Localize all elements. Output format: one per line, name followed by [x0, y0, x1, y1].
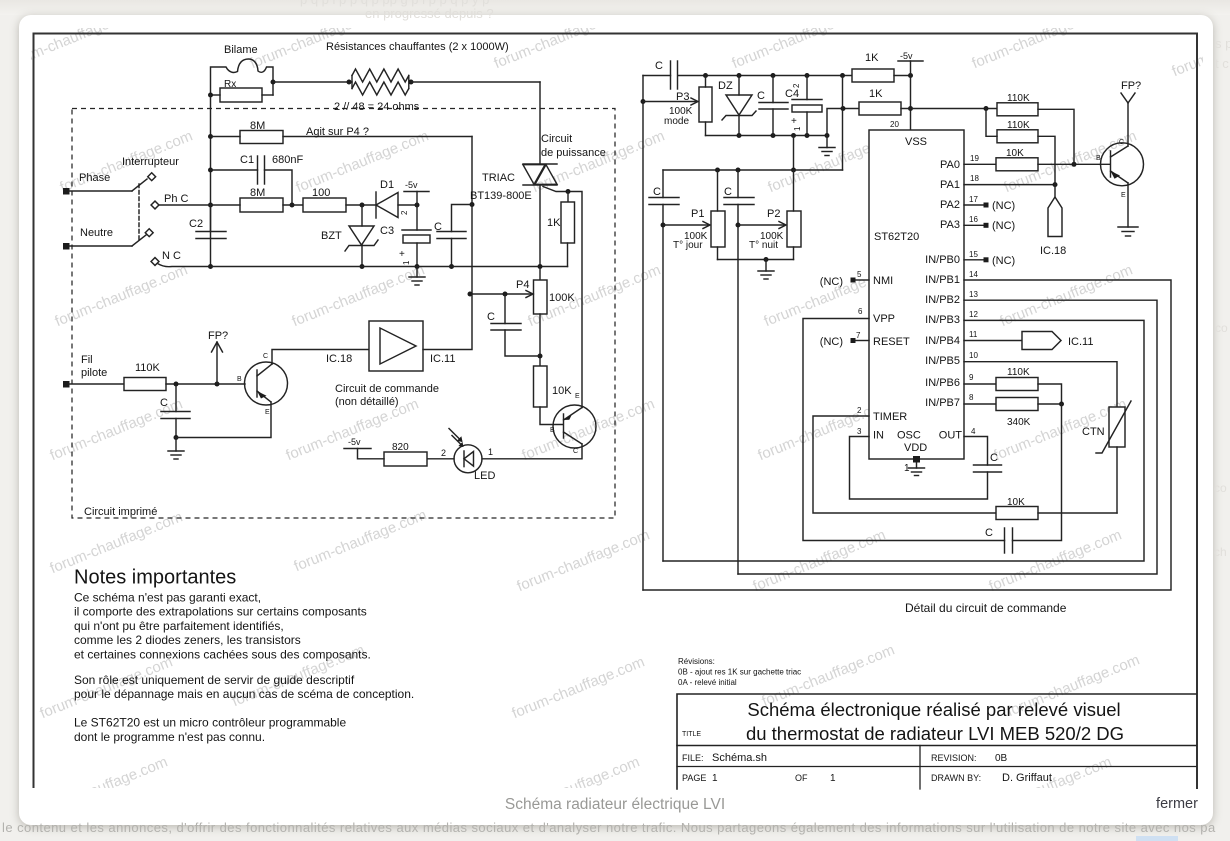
svg-text:C3: C3: [380, 225, 394, 237]
svg-text:8: 8: [969, 393, 974, 402]
svg-text:+: +: [791, 116, 797, 127]
svg-text:comme les 2 diodes zeners, les: comme les 2 diodes zeners, les transisto…: [74, 633, 301, 647]
RIGHT DETAIL: [641, 51, 1172, 615]
svg-text:VDD: VDD: [904, 442, 927, 454]
svg-text:17: 17: [969, 195, 978, 204]
svg-text:Notes importantes: Notes importantes: [74, 567, 236, 589]
svg-text:6: 6: [858, 307, 863, 316]
svg-text:E: E: [575, 393, 580, 400]
svg-text:p q p l: p q p l p p q p pp g p l p p q p y p: [300, 0, 489, 7]
svg-text:PAGE: PAGE: [682, 773, 706, 783]
svg-text:Le ST62T20 est un micro contrô: Le ST62T20 est un micro contrôleur progr…: [74, 716, 346, 730]
svg-text:VSS: VSS: [905, 136, 927, 148]
wire amp output up to P4: [423, 294, 472, 350]
ground under C pilote: [175, 438, 177, 452]
svg-text:forum-chauffage.com: forum-chauffage.com: [292, 506, 430, 575]
svg-text:co: co: [1214, 481, 1227, 495]
svg-text:(NC): (NC): [992, 220, 1015, 232]
svg-text:Neutre: Neutre: [80, 227, 113, 239]
svg-text:Agit sur P4 ?: Agit sur P4 ?: [306, 126, 369, 138]
svg-text:IC.11: IC.11: [430, 353, 455, 365]
svg-text:+: +: [399, 249, 405, 260]
svg-text:forum-chauffage.com: forum-chauffage.com: [5, 3, 143, 72]
bimetal switch Bilame: [211, 59, 274, 95]
dashed PCB outline box: [72, 109, 615, 519]
svg-text:-5v: -5v: [405, 180, 418, 190]
svg-text:Révisions:: Révisions:: [678, 657, 715, 666]
svg-text:D1: D1: [380, 179, 394, 191]
svg-text:REVISION:: REVISION:: [931, 753, 977, 763]
svg-text:-5v: -5v: [900, 51, 913, 61]
svg-text:IC.11: IC.11: [1068, 336, 1093, 348]
svg-text:PA1: PA1: [940, 179, 960, 191]
svg-text:2: 2: [441, 448, 446, 458]
blue link patch bottom right: [1136, 836, 1178, 841]
triac gate wire: [543, 187, 582, 408]
svg-text:RESET: RESET: [873, 336, 910, 348]
LED arrows incoming light: [449, 429, 462, 442]
wire LED left: [427, 458, 454, 460]
wire Agit sur P4: [283, 136, 472, 138]
svg-text:Détail du circuit de commande: Détail du circuit de commande: [905, 601, 1067, 615]
svg-text:forum-chauffage.com: forum-chauffage.com: [492, 3, 630, 72]
ground at rail: [826, 136, 828, 148]
svg-text:1: 1: [830, 773, 836, 784]
svg-text:OF: OF: [795, 773, 808, 783]
ground under C3: [416, 267, 418, 278]
svg-text:T° nuit: T° nuit: [749, 240, 778, 251]
IC U1 ST62T20: [869, 130, 964, 459]
svg-text:mode: mode: [664, 116, 689, 127]
svg-text:ST62T20: ST62T20: [874, 231, 919, 243]
svg-text:0B: 0B: [995, 753, 1008, 764]
svg-text:Phase: Phase: [79, 172, 110, 184]
svg-text:2: 2: [857, 406, 862, 415]
title block border: [677, 694, 1196, 789]
svg-text:C: C: [573, 448, 578, 455]
svg-text:de puissance: de puissance: [541, 147, 606, 159]
wire bottom NC rail: [211, 266, 568, 268]
svg-text:C: C: [263, 353, 268, 360]
svg-text:VPP: VPP: [873, 313, 895, 325]
svg-text:TRIAC: TRIAC: [482, 172, 515, 184]
svg-text:680nF: 680nF: [272, 154, 303, 166]
terminal Neutre: [63, 243, 70, 250]
svg-text:1: 1: [488, 447, 493, 457]
svg-text:CTN: CTN: [1082, 426, 1105, 438]
svg-text:TIMER: TIMER: [873, 411, 907, 423]
svg-text:C2: C2: [189, 218, 203, 230]
svg-text:0A - relevé initial: 0A - relevé initial: [678, 678, 737, 687]
svg-text:C: C: [160, 397, 168, 409]
svg-text:Schéma radiateur électrique LV: Schéma radiateur électrique LVI: [505, 796, 725, 813]
svg-text:E: E: [1121, 192, 1126, 199]
wire loop B left vertical: [737, 205, 739, 575]
svg-text:C4: C4: [785, 88, 799, 100]
wire emitter to ground: [1127, 183, 1129, 227]
wire P1 P2 bottom: [718, 259, 794, 261]
svg-text:2: 2: [400, 210, 409, 215]
LEFT SCHEMATIC: [63, 41, 615, 518]
wire heating resistor to triac column: [411, 81, 540, 83]
svg-text:T° jour: T° jour: [673, 240, 703, 251]
svg-text:Circuit imprimé: Circuit imprimé: [84, 506, 157, 518]
svg-text:IN/PB4: IN/PB4: [925, 335, 960, 347]
wire left loop vertical: [642, 76, 644, 591]
svg-text:du thermostat de radiateur LVI: du thermostat de radiateur LVI MEB 520/2…: [746, 723, 1124, 744]
svg-text:E: E: [265, 409, 270, 416]
svg-text:B: B: [550, 427, 555, 434]
wire rail to 1K row: [827, 109, 859, 136]
svg-text:BT139-800E: BT139-800E: [470, 190, 532, 202]
svg-text:P2: P2: [767, 208, 780, 220]
svg-text:3: 3: [857, 427, 862, 436]
svg-text:C1: C1: [240, 154, 254, 166]
wire top rail: [643, 75, 671, 77]
svg-text:dont le programme n'est pas co: dont le programme n'est pas connu.: [74, 730, 265, 744]
svg-text:Interrupteur: Interrupteur: [122, 156, 179, 168]
svg-text:IN/PB2: IN/PB2: [925, 294, 960, 306]
svg-text:IN/PB3: IN/PB3: [925, 314, 960, 326]
svg-text:16: 16: [969, 215, 978, 224]
svg-text:C: C: [487, 311, 495, 323]
svg-text:(NC): (NC): [992, 200, 1015, 212]
svg-text:1K: 1K: [865, 52, 879, 64]
wire loop C left vertical: [662, 205, 664, 562]
svg-text:PA2: PA2: [940, 199, 960, 211]
svg-text:forum-chauffage.com: forum-chauffage.com: [970, 3, 1108, 72]
svg-text:NMI: NMI: [873, 275, 893, 287]
svg-text:2: 2: [792, 83, 801, 88]
svg-text:t c: t c: [1215, 56, 1229, 71]
svg-text:10: 10: [969, 351, 978, 360]
svg-text:IC.18: IC.18: [326, 353, 352, 365]
transistor Q3: [1101, 143, 1144, 186]
svg-text:forum-chauffage.com: forum-chauffage.com: [290, 261, 428, 330]
svg-text:(NC): (NC): [820, 276, 843, 288]
svg-text:PA3: PA3: [940, 219, 960, 231]
svg-text:forum-chauffage.com: forum-chauffage.com: [730, 3, 868, 72]
svg-text:110K: 110K: [135, 362, 161, 374]
wire phase: [69, 190, 132, 192]
svg-text:B: B: [1096, 155, 1101, 162]
svg-text:IC.18: IC.18: [1040, 245, 1066, 257]
svg-text:0B - ajout res 1K sur gachette: 0B - ajout res 1K sur gachette triac: [678, 668, 801, 677]
svg-text:IN/PB1: IN/PB1: [925, 274, 960, 286]
svg-text:1: 1: [712, 773, 718, 784]
svg-text:4: 4: [971, 427, 976, 436]
svg-text:Fil: Fil: [81, 354, 93, 366]
svg-text:-5v: -5v: [348, 437, 361, 447]
svg-text:IN/PB5: IN/PB5: [925, 355, 960, 367]
svg-text:BZT: BZT: [321, 230, 342, 242]
wire neutre: [69, 245, 132, 247]
svg-text:co: co: [1215, 321, 1228, 335]
svg-text:C: C: [990, 452, 998, 464]
svg-text:Résistances chauffantes (2 x 1: Résistances chauffantes (2 x 1000W): [326, 41, 509, 53]
svg-text:Circuit de commande: Circuit de commande: [335, 383, 439, 395]
svg-text:7: 7: [856, 331, 861, 340]
svg-text:C: C: [724, 186, 732, 198]
svg-text:1K: 1K: [547, 217, 561, 229]
wire collector to antenna: [1127, 103, 1129, 146]
svg-text:OUT: OUT: [939, 430, 963, 442]
svg-text:Schéma électronique réalisé pa: Schéma électronique réalisé par relevé v…: [747, 699, 1120, 720]
svg-text:OSC: OSC: [897, 430, 921, 442]
svg-text:(non détaillé): (non détaillé): [335, 396, 399, 408]
svg-text:10K: 10K: [552, 385, 572, 397]
svg-text:forum-chauffage.com: forum-chauffage.com: [33, 753, 171, 822]
transistor Q2 right: [553, 405, 596, 448]
transistor Q1 left: [245, 362, 288, 405]
wire NC to rail: [158, 264, 211, 267]
svg-text:IN/PB7: IN/PB7: [925, 397, 960, 409]
svg-text:pour le dépannage mais en aucu: pour le dépannage mais en aucun cas de s…: [74, 687, 414, 701]
svg-text:IN/PB6: IN/PB6: [925, 377, 960, 389]
svg-text:FILE:: FILE:: [682, 753, 704, 763]
svg-text:2 // 48 = 24 ohms: 2 // 48 = 24 ohms: [334, 101, 420, 113]
wire Ph C: [159, 204, 211, 206]
contact diamond neutre top: [145, 229, 153, 237]
ground P1P2: [765, 260, 767, 272]
svg-text:18: 18: [970, 174, 979, 183]
svg-text:le contenu et les annonces, d': le contenu et les annonces, d'offrir des…: [2, 820, 1216, 835]
svg-text:C: C: [1119, 139, 1124, 146]
svg-text:13: 13: [969, 290, 978, 299]
svg-text:15: 15: [969, 250, 978, 259]
svg-text:(NC): (NC): [992, 255, 1015, 267]
wire main left vertical node: [210, 95, 212, 267]
svg-text:forum-chauffage.com: forum-chauffage.com: [515, 526, 653, 595]
svg-text:110K: 110K: [1007, 367, 1030, 378]
svg-text:N C: N C: [162, 250, 181, 262]
svg-text:Schéma.sh: Schéma.sh: [712, 752, 767, 764]
LED: [454, 445, 482, 473]
svg-text:20: 20: [890, 120, 899, 129]
svg-text:9: 9: [969, 373, 974, 382]
svg-text:forum-chauffage.com: forum-chauffage.com: [510, 653, 648, 722]
svg-text:et certaines connexions cachée: et certaines connexions cachées sous des…: [74, 647, 371, 661]
svg-text:P1: P1: [691, 208, 704, 220]
svg-text:s p: s p: [1215, 36, 1230, 51]
svg-text:Ce schéma n'est pas garanti ex: Ce schéma n'est pas garanti exact,: [74, 591, 261, 605]
svg-text:PA0: PA0: [940, 159, 960, 171]
svg-text:FP?: FP?: [208, 330, 228, 342]
svg-text:forum-chauffage.com: forum-chauffage.com: [53, 261, 191, 330]
svg-text:FP?: FP?: [1121, 80, 1141, 92]
svg-text:IN/PB0: IN/PB0: [925, 254, 960, 266]
svg-text:Ph C: Ph C: [164, 193, 189, 205]
svg-text:LED: LED: [474, 470, 495, 482]
wire P1 P2 top rail: [663, 169, 843, 171]
wire vertical from Agit line down: [471, 137, 473, 295]
switch blade neutre: [132, 235, 146, 246]
svg-text:TITLE: TITLE: [682, 731, 701, 738]
svg-text:pilote: pilote: [81, 367, 107, 379]
svg-text:IN: IN: [873, 430, 884, 442]
svg-text:C: C: [985, 527, 993, 539]
contact diamond phase top: [148, 173, 156, 181]
svg-text:il comporte des extrapolations: il comporte des extrapolations sur certa…: [74, 605, 367, 619]
IC.18 bullet connector: [1048, 197, 1062, 237]
svg-text:en progressé depuis ?: en progressé depuis ?: [365, 6, 494, 21]
svg-text:(NC): (NC): [820, 336, 843, 348]
svg-text:12: 12: [969, 310, 978, 319]
svg-text:DRAWN BY:: DRAWN BY:: [931, 773, 981, 783]
switch blade phase: [132, 179, 147, 191]
svg-text:qui n'ont pu être parfaitement: qui n'ont pu être parfaitement identifié…: [74, 619, 284, 633]
svg-text:11: 11: [969, 330, 978, 339]
svg-text:Bilame: Bilame: [224, 44, 258, 56]
wire fil pilote: [69, 383, 124, 385]
svg-text:1K: 1K: [869, 88, 883, 100]
svg-text:C: C: [655, 60, 663, 72]
svg-text:5: 5: [857, 270, 862, 279]
svg-text:ch: ch: [1214, 545, 1227, 559]
svg-text:340K: 340K: [1007, 417, 1031, 428]
svg-text:C: C: [757, 90, 765, 102]
wire bilame to heating resistors: [273, 81, 352, 83]
svg-text:Circuit: Circuit: [541, 133, 572, 145]
wire vertical to P1P2 rail: [842, 76, 844, 171]
svg-text:Son rôle est uniquement de ser: Son rôle est uniquement de servir de gui…: [74, 673, 355, 687]
svg-text:DZ: DZ: [718, 80, 733, 92]
svg-text:1: 1: [402, 260, 411, 265]
svg-text:19: 19: [970, 154, 979, 163]
svg-text:B: B: [237, 376, 242, 383]
svg-text:1: 1: [793, 126, 802, 131]
svg-text:C: C: [653, 186, 661, 198]
svg-text:14: 14: [969, 270, 978, 279]
svg-text:D. Griffaut: D. Griffaut: [1002, 772, 1052, 784]
svg-text:100K: 100K: [549, 292, 575, 304]
svg-text:8M: 8M: [250, 187, 265, 199]
svg-text:P4: P4: [516, 279, 529, 291]
wire Rx leads: [211, 94, 221, 96]
mechanical link dashed: [138, 184, 140, 241]
NOTES AND TITLEBLOCK: [74, 567, 1196, 790]
svg-text:fermer: fermer: [1156, 796, 1198, 812]
wire vertical rail link: [793, 136, 795, 171]
svg-text:100: 100: [312, 187, 330, 199]
wire lower rail P3: [706, 135, 828, 137]
terminal Phase: [63, 188, 70, 195]
